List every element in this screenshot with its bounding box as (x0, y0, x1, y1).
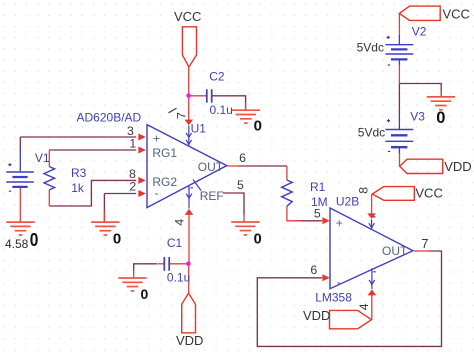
power pin glyph U2B pin8 (369, 217, 376, 229)
pin arrow U2B pin4 (368, 289, 377, 295)
battery V3 (385, 119, 413, 153)
pin arrow U2B pin6 (322, 274, 329, 281)
wire U1 OUT to R1 (238, 165, 287, 167)
svg-text:VCC: VCC (415, 186, 442, 201)
svg-text:VCC: VCC (174, 9, 201, 24)
resistor R3 (44, 167, 55, 190)
svg-text:6: 6 (239, 151, 246, 165)
op-amp U2B LM358 body (330, 208, 413, 289)
svg-text:V1: V1 (35, 151, 50, 165)
power pin glyph U2B pin4 (369, 268, 376, 289)
svg-text:5Vdc: 5Vdc (357, 40, 384, 54)
wire C1 ground stub (133, 270, 135, 278)
wire pin2 ground stub (103, 211, 105, 222)
pin arrow U1 pin1 (138, 147, 145, 154)
svg-text:0: 0 (254, 232, 262, 248)
power flag VDD below U1 (182, 293, 196, 333)
svg-text:4: 4 (357, 303, 371, 310)
svg-text:4.58: 4.58 (5, 237, 29, 251)
svg-text:1: 1 (129, 137, 136, 151)
pin arrow U1 pin4 (185, 209, 194, 215)
svg-text:AD620B/AD: AD620B/AD (77, 111, 142, 125)
wire R1 bottom lead (287, 206, 301, 221)
svg-text:7: 7 (421, 236, 428, 251)
svg-text:5: 5 (237, 178, 244, 192)
svg-text:8: 8 (356, 187, 370, 194)
capacitor C2 (207, 89, 212, 102)
svg-text:U2B: U2B (336, 194, 359, 208)
wire net RG2 (R3 bottom to U1 pin8) (49, 180, 136, 206)
svg-text:LM358: LM358 (315, 291, 352, 305)
svg-text:OUT: OUT (382, 244, 408, 258)
svg-text:+: + (336, 216, 343, 230)
svg-text:0: 0 (113, 230, 121, 247)
svg-text:0: 0 (141, 286, 149, 302)
wire V2 minus to ground branch (399, 84, 441, 120)
svg-text:C1: C1 (167, 236, 183, 250)
wire C1 to ground (134, 264, 157, 271)
wire U2B output pin stub (414, 250, 430, 252)
wire V2 minus stub (398, 64, 400, 84)
junction node C1 (186, 262, 191, 267)
wire REF to ground (223, 193, 244, 215)
svg-text:V3: V3 (410, 110, 425, 124)
power pin glyph U1 pin7 (186, 126, 192, 147)
ground 0 below C1 (118, 278, 146, 291)
wire feedback loop U2B (257, 251, 441, 346)
svg-text:OUT: OUT (198, 160, 224, 174)
wire R3 top lead (48, 150, 50, 166)
svg-text:VCC: VCC (443, 7, 470, 22)
wire REF ground stub (243, 214, 245, 222)
wire C1 right lead (169, 263, 187, 265)
stray tick near U1 pin7 (169, 108, 177, 113)
power flag VDD at U2B pin4 (330, 310, 372, 328)
svg-text:0: 0 (436, 109, 445, 127)
power pin glyph U1 pin4 (186, 186, 193, 209)
wire U1 OUT pin stub (227, 165, 239, 167)
pin arrow U1 pin8 (138, 177, 145, 184)
power flag VDD right of V3 (400, 159, 443, 173)
svg-text:RG1: RG1 (152, 146, 177, 160)
pin arrow U1 pin3 (138, 134, 145, 141)
ground 0 below U1 pin2 (91, 222, 119, 235)
power flag VCC above U1 (182, 27, 196, 67)
wire net C2 to ground (212, 96, 246, 110)
power flag VCC at U2B pin8 (372, 187, 414, 201)
REF pin diagonal U1 (193, 180, 201, 191)
junction node C2 (186, 93, 191, 98)
op-amp U1 AD620B/AD body (147, 125, 227, 208)
svg-text:7: 7 (174, 112, 188, 119)
resistor R1 (282, 180, 293, 206)
ground 0 below V1 (6, 222, 34, 235)
battery V2 polarity marks (387, 36, 391, 65)
svg-text:4: 4 (173, 219, 187, 226)
power flag VCC top right (399, 6, 440, 20)
svg-text:VDD: VDD (303, 308, 330, 323)
ground 0 below C2 (232, 110, 260, 123)
svg-text:R3: R3 (71, 166, 87, 180)
svg-text:0: 0 (30, 229, 39, 250)
ground 0 below REF (231, 222, 259, 235)
svg-text:V2: V2 (412, 24, 427, 38)
battery V2 (385, 35, 413, 65)
wire V3 minus to VDD flag (399, 153, 401, 167)
battery V3 polarity marks (387, 119, 390, 151)
wire R1 bottom to U2B pin5 (294, 220, 322, 222)
wire VCC flag to V2 plus (398, 14, 400, 36)
svg-text:REF: REF (200, 189, 224, 203)
battery V1 (6, 150, 34, 187)
svg-text:VDD: VDD (444, 159, 471, 174)
wire U2B pin8 to VCC flag (371, 195, 373, 214)
wire V1 minus lead to ground (19, 187, 21, 222)
svg-text:0.1u: 0.1u (167, 270, 190, 284)
wire C2 left lead (190, 95, 207, 97)
pin arrow U2B pin8 (367, 213, 376, 219)
wire U1 pin4 to C1 junction to VDD flag (188, 215, 190, 293)
battery V1 polarity marks (8, 163, 11, 191)
pin arrow U1 pin2 (138, 190, 145, 197)
svg-text:5: 5 (314, 206, 321, 220)
svg-text:5Vdc: 5Vdc (358, 126, 385, 140)
svg-text:U1: U1 (191, 122, 207, 136)
svg-text:1k: 1k (71, 181, 85, 195)
svg-text:0: 0 (254, 118, 262, 135)
capacitor C1 (164, 257, 169, 271)
wire R3 bottom lead (48, 190, 50, 206)
wire net IN+ (V1 to U1 pin3) (20, 137, 136, 150)
svg-text:R1: R1 (310, 180, 326, 194)
ground 0 right of V2 (427, 97, 455, 110)
pin arrow U2B pin5 (322, 217, 329, 224)
svg-text:6: 6 (310, 263, 317, 277)
wire V2V3 ground stub (440, 90, 442, 97)
wire U2B pin4 to VDD flag (371, 295, 373, 320)
svg-text:VDD: VDD (176, 333, 203, 348)
svg-text:C2: C2 (209, 69, 225, 83)
svg-text:-: - (337, 275, 341, 289)
svg-text:-: - (155, 186, 159, 200)
pin arrow U1 pin7 (185, 120, 194, 126)
wire C1 left lead (158, 263, 165, 265)
svg-text:2: 2 (129, 179, 136, 193)
wire net RG1 (R3 top to U1 pin1) (49, 149, 136, 151)
wire R1 top lead (286, 166, 288, 180)
svg-text:+: + (153, 132, 160, 146)
wire net IN- (U1 pin2 to ground) (104, 194, 136, 222)
wire VCC flag to U1 pin7 and C2 junction (188, 67, 190, 121)
wire C2 right ground stub (245, 103, 247, 110)
svg-text:0.1u: 0.1u (210, 103, 233, 117)
